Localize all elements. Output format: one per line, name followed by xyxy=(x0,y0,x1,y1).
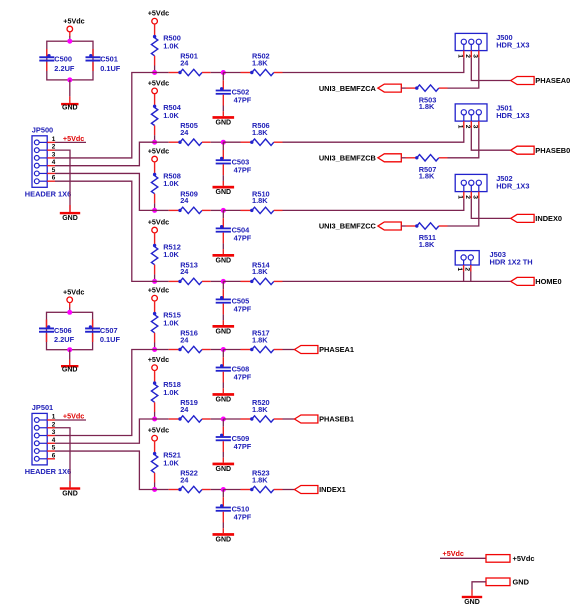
wire J500 pin 2 to PHASEA0 flag xyxy=(471,58,510,81)
svg-text:GND: GND xyxy=(216,397,232,404)
svg-text:GND: GND xyxy=(513,577,530,586)
svg-text:47PF: 47PF xyxy=(234,442,252,451)
wire J502 pin 2 to INDEX0 flag xyxy=(471,199,510,219)
svg-text:24: 24 xyxy=(180,267,189,276)
capacitor C504 47PF and ground xyxy=(222,210,224,218)
svg-text:C507: C507 xyxy=(100,326,118,335)
svg-text:1.8K: 1.8K xyxy=(419,240,435,249)
wire J503 pin 1 lead xyxy=(463,272,465,282)
svg-text:1.0K: 1.0K xyxy=(163,388,179,397)
svg-text:24: 24 xyxy=(180,196,189,205)
connector J501 HDR_1X3 xyxy=(455,104,487,121)
resistor R519 24 xyxy=(169,418,180,420)
wire xyxy=(223,349,240,351)
svg-text:47PF: 47PF xyxy=(234,234,252,243)
capacitor C506 2.2UF xyxy=(46,320,48,329)
junction top of block xyxy=(67,310,72,315)
resistor R505 24 xyxy=(169,141,180,143)
wire xyxy=(401,225,405,227)
svg-text:1.0K: 1.0K xyxy=(163,318,179,327)
junction node C504 xyxy=(221,208,226,213)
junction node C503 xyxy=(221,140,226,145)
svg-text:+5Vdc: +5Vdc xyxy=(148,286,169,295)
svg-text:HDR_1X3: HDR_1X3 xyxy=(496,111,529,120)
capacitor C505 47PF and ground xyxy=(222,281,224,289)
wire J501 pin 2 to PHASEB0 flag xyxy=(471,128,510,150)
svg-text:+5Vdc: +5Vdc xyxy=(148,218,169,227)
junction node R508/R509 xyxy=(152,208,157,213)
svg-text:1.0K: 1.0K xyxy=(163,111,179,120)
svg-text:47PF: 47PF xyxy=(234,165,252,174)
svg-text:47PF: 47PF xyxy=(234,96,252,105)
svg-text:47PF: 47PF xyxy=(234,513,252,522)
wire JP501 pin5 to row7 xyxy=(55,451,155,489)
connector J500 HDR_1X3 xyxy=(455,33,487,50)
svg-text:2: 2 xyxy=(463,267,470,271)
capacitor C508 47PF and ground xyxy=(222,350,224,358)
svg-text:+5Vdc: +5Vdc xyxy=(513,554,535,563)
resistor R508 1.0K xyxy=(154,162,156,176)
wire xyxy=(283,489,295,491)
svg-text:INDEX1: INDEX1 xyxy=(319,485,346,494)
svg-text:PHASEB1: PHASEB1 xyxy=(319,415,354,424)
svg-text:HEADER 1X6: HEADER 1X6 xyxy=(25,189,71,198)
svg-text:0.1UF: 0.1UF xyxy=(100,335,121,344)
wire R503 to J500 pin 3 xyxy=(448,58,479,89)
wire xyxy=(155,280,169,282)
svg-text:24: 24 xyxy=(180,405,189,414)
wire xyxy=(223,280,240,282)
svg-text:2: 2 xyxy=(464,195,471,199)
junction node R512/R513 xyxy=(152,279,157,284)
ground below JP501 xyxy=(69,481,71,487)
resistor R506 1.8K xyxy=(241,141,252,143)
wire R502 output to J500 pin 1 xyxy=(283,58,464,73)
svg-text:2.2UF: 2.2UF xyxy=(54,64,75,73)
svg-text:C506: C506 xyxy=(54,326,72,335)
svg-text:GND: GND xyxy=(216,328,232,335)
svg-text:+5Vdc: +5Vdc xyxy=(148,355,169,364)
wire JP500 pin2 to ground xyxy=(55,150,70,212)
wire R507 to J501 pin 3 xyxy=(448,128,479,158)
ground legend xyxy=(462,596,482,598)
junction bottom of block xyxy=(67,77,72,82)
svg-text:24: 24 xyxy=(180,58,189,67)
ground below C500 block xyxy=(69,80,71,97)
resistor R511 1.8K xyxy=(406,225,417,227)
svg-text:+5Vdc: +5Vdc xyxy=(148,426,169,435)
svg-text:0.1UF: 0.1UF xyxy=(100,64,121,73)
junction node R521/R522 xyxy=(152,487,157,492)
svg-text:HOME0: HOME0 xyxy=(535,277,561,286)
svg-text:GND: GND xyxy=(216,257,232,264)
wire JP501 pin4 to row6 xyxy=(55,419,155,443)
capacitor C501 0.1UF xyxy=(92,49,94,57)
wire xyxy=(155,209,169,211)
svg-text:1.0K: 1.0K xyxy=(163,179,179,188)
wire xyxy=(211,280,224,282)
junction node C509 xyxy=(221,417,226,422)
svg-text:INDEX0: INDEX0 xyxy=(535,214,562,223)
svg-text:UNI3_BEMFZCC: UNI3_BEMFZCC xyxy=(319,222,377,231)
ground below C506 block xyxy=(69,350,71,360)
svg-text:1.8K: 1.8K xyxy=(252,267,268,276)
resistor R521 1.0K xyxy=(154,441,156,455)
resistor R503 1.8K xyxy=(406,87,417,89)
wire xyxy=(223,72,240,74)
svg-text:24: 24 xyxy=(180,335,189,344)
wire xyxy=(223,141,240,143)
wire xyxy=(211,72,224,74)
wire xyxy=(155,349,169,351)
svg-text:1.8K: 1.8K xyxy=(252,405,268,414)
svg-text:GND: GND xyxy=(216,537,232,544)
wire xyxy=(211,349,224,351)
junction node C502 xyxy=(221,70,226,75)
svg-text:1: 1 xyxy=(456,125,463,129)
svg-text:HDR_1X3: HDR_1X3 xyxy=(496,182,529,191)
svg-text:PHASEA1: PHASEA1 xyxy=(319,345,354,354)
resistor R523 1.8K xyxy=(241,489,252,491)
wire JP500 pin6 to row4 xyxy=(55,181,155,281)
wire J503 pin 2 lead xyxy=(470,272,472,282)
svg-text:1.8K: 1.8K xyxy=(252,196,268,205)
wire xyxy=(155,489,169,491)
svg-text:GND: GND xyxy=(62,215,78,222)
svg-text:1.8K: 1.8K xyxy=(252,335,268,344)
junction node R500/R501 xyxy=(152,70,157,75)
svg-text:PHASEB0: PHASEB0 xyxy=(535,146,570,155)
svg-text:GND: GND xyxy=(62,491,78,498)
svg-text:1.0K: 1.0K xyxy=(163,458,179,467)
junction node C508 xyxy=(221,347,226,352)
resistor R518 1.0K xyxy=(154,371,156,385)
wire C506/C507 loop xyxy=(47,312,93,349)
junction node R515/R516 xyxy=(152,347,157,352)
resistor R513 24 xyxy=(169,280,180,282)
svg-text:UNI3_BEMFZCB: UNI3_BEMFZCB xyxy=(319,154,376,163)
junction bottom of block xyxy=(67,347,72,352)
svg-text:+5Vdc: +5Vdc xyxy=(63,412,84,421)
svg-text:JP500: JP500 xyxy=(32,126,53,135)
wire C500/C501 loop xyxy=(47,41,93,80)
svg-text:+5Vdc: +5Vdc xyxy=(148,9,169,18)
capacitor C500 2.2UF xyxy=(46,49,48,57)
wire JP501 pin2 to ground xyxy=(55,428,70,488)
svg-text:+5Vdc: +5Vdc xyxy=(148,147,169,156)
wire JP501 pin3 to row5 xyxy=(55,350,155,436)
wire R511 to J502 pin 3 xyxy=(448,199,479,226)
junction node R504/R505 xyxy=(152,140,157,145)
svg-text:1.0K: 1.0K xyxy=(163,41,179,50)
junction top of block xyxy=(67,39,72,44)
wire xyxy=(223,209,240,211)
svg-text:UNI3_BEMFZCA: UNI3_BEMFZCA xyxy=(319,84,377,93)
svg-text:1: 1 xyxy=(456,195,463,199)
capacitor C503 47PF and ground xyxy=(222,142,224,150)
wire JP501 pin1 +5Vdc xyxy=(55,419,86,421)
resistor R512 1.0K xyxy=(154,233,156,247)
connector J503 HDR 1X2 TH xyxy=(455,251,479,265)
offpage flag HOME0 xyxy=(511,277,534,285)
wire R506 output to J501 pin 1 xyxy=(283,128,464,142)
resistor R507 1.8K xyxy=(406,157,417,159)
svg-text:+5Vdc: +5Vdc xyxy=(63,17,84,26)
wire xyxy=(155,141,169,143)
svg-text:1.8K: 1.8K xyxy=(252,475,268,484)
offpage flag PHASEA0 xyxy=(511,77,534,85)
offpage flag INDEX0 xyxy=(511,214,534,222)
wire xyxy=(401,157,405,159)
wire xyxy=(223,418,240,420)
svg-text:47PF: 47PF xyxy=(234,305,252,314)
capacitor C509 47PF and ground xyxy=(222,419,224,427)
offpage flag INDEX1 xyxy=(295,486,318,494)
svg-text:47PF: 47PF xyxy=(234,373,252,382)
wire xyxy=(283,349,295,351)
resistor R515 1.0K xyxy=(154,301,156,315)
svg-text:24: 24 xyxy=(180,128,189,137)
svg-text:PHASEA0: PHASEA0 xyxy=(535,76,570,85)
svg-text:GND: GND xyxy=(62,105,78,112)
power net label GND legend xyxy=(486,578,510,586)
svg-text:1.8K: 1.8K xyxy=(419,172,435,181)
resistor R517 1.8K xyxy=(241,349,252,351)
svg-text:1.8K: 1.8K xyxy=(419,102,435,111)
resistor R509 24 xyxy=(169,209,180,211)
wire xyxy=(155,72,169,74)
wire xyxy=(211,209,224,211)
wire JP500 pin4 to row2 xyxy=(55,142,155,165)
svg-text:1: 1 xyxy=(456,54,463,58)
svg-text:GND: GND xyxy=(216,120,232,127)
svg-text:3: 3 xyxy=(471,195,478,199)
resistor R514 1.8K xyxy=(241,280,252,282)
svg-text:GND: GND xyxy=(216,466,232,473)
svg-text:1: 1 xyxy=(456,267,463,271)
svg-text:2.2UF: 2.2UF xyxy=(54,335,75,344)
capacitor C510 47PF and ground xyxy=(222,490,224,498)
wire xyxy=(401,87,405,89)
wire xyxy=(223,489,240,491)
svg-text:+5Vdc: +5Vdc xyxy=(148,78,169,87)
svg-text:C501: C501 xyxy=(100,55,118,64)
svg-text:1.8K: 1.8K xyxy=(252,58,268,67)
resistor R502 1.8K xyxy=(241,72,252,74)
svg-text:6: 6 xyxy=(52,452,56,459)
wire JP500 pin5 to row3 xyxy=(55,173,155,210)
svg-text:GND: GND xyxy=(62,367,78,374)
svg-text:HDR 1X2 TH: HDR 1X2 TH xyxy=(490,257,533,266)
wire JP500 pin1 +5Vdc xyxy=(55,141,86,143)
capacitor C502 47PF and ground xyxy=(222,73,224,81)
svg-text:1.0K: 1.0K xyxy=(163,250,179,259)
svg-text:3: 3 xyxy=(471,54,478,58)
junction node C510 xyxy=(221,487,226,492)
offpage flag PHASEB1 xyxy=(295,415,318,423)
svg-text:2: 2 xyxy=(464,54,471,58)
svg-text:HDR_1X3: HDR_1X3 xyxy=(496,41,529,50)
resistor R504 1.0K xyxy=(154,94,156,108)
svg-text:HEADER 1X6: HEADER 1X6 xyxy=(25,467,71,476)
resistor R501 24 xyxy=(169,72,180,74)
resistor R510 1.8K xyxy=(241,209,252,211)
svg-text:3: 3 xyxy=(471,125,478,129)
svg-text:C500: C500 xyxy=(54,55,72,64)
resistor R520 1.8K xyxy=(241,418,252,420)
junction node R518/R519 xyxy=(152,417,157,422)
svg-text:+5Vdc: +5Vdc xyxy=(443,549,464,558)
wire xyxy=(155,418,169,420)
svg-text:1.8K: 1.8K xyxy=(252,128,268,137)
svg-text:24: 24 xyxy=(180,475,189,484)
resistor R516 24 xyxy=(169,349,180,351)
svg-text:2: 2 xyxy=(464,125,471,129)
junction node C505 xyxy=(221,279,226,284)
wire R510 output to J502 pin 1 xyxy=(283,199,464,211)
offpage flag PHASEB0 xyxy=(511,146,534,154)
svg-text:GND: GND xyxy=(464,599,480,606)
wire xyxy=(211,489,224,491)
wire row4 to HOME0 xyxy=(283,280,511,282)
wire xyxy=(283,418,295,420)
svg-text:+5Vdc: +5Vdc xyxy=(63,134,84,143)
wire xyxy=(211,141,224,143)
connector J502 HDR_1X3 xyxy=(455,174,487,191)
ground below JP500 xyxy=(69,205,71,212)
svg-text:GND: GND xyxy=(216,189,232,196)
resistor R500 1.0K xyxy=(154,24,156,38)
offpage flag PHASEA1 xyxy=(295,346,318,354)
wire xyxy=(211,418,224,420)
wire JP500 pin3 to row1 xyxy=(55,73,155,158)
svg-text:+5Vdc: +5Vdc xyxy=(63,287,84,296)
svg-text:JP501: JP501 xyxy=(32,403,53,412)
resistor R522 24 xyxy=(169,489,180,491)
capacitor C507 0.1UF xyxy=(92,320,94,329)
